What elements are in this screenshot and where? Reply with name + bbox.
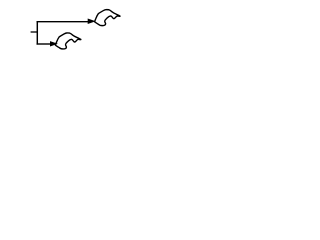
wire bottom rail <box>37 43 51 45</box>
blob squiggle S2 <box>55 33 80 49</box>
arrowhead A2 <box>50 41 58 46</box>
node dash <box>31 31 37 32</box>
wire vertical trunk <box>36 21 38 44</box>
blob squiggle S1 <box>95 10 120 26</box>
arrowhead A1 <box>88 19 96 25</box>
wire top rail <box>37 21 89 23</box>
